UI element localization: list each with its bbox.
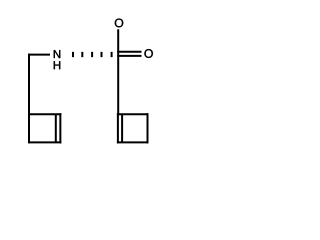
node: right cyclobutene ring [117,113,149,143]
node: left cyclobutene ring [28,113,61,143]
atom O right [144,49,152,58]
wire: bond CH2 vertical down to left ring [28,54,30,115]
hashed stereo bond N-C [72,52,113,57]
wire: bond C-O single vertical (top) and C down to right ring [117,29,119,114]
wire: bond CH2-N horizontal [28,54,50,56]
atom O top [115,19,123,28]
atom H [54,61,60,69]
atom N [54,50,60,58]
double bond C=O [117,52,141,56]
